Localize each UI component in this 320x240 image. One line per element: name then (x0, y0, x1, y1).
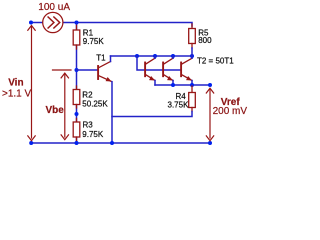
svg-text:R3: R3 (83, 120, 94, 129)
svg-text:T2 = 50T1: T2 = 50T1 (197, 57, 234, 66)
svg-text:>1.1 V: >1.1 V (2, 88, 32, 99)
svg-text:3.75K: 3.75K (168, 101, 190, 110)
svg-text:50.25K: 50.25K (82, 100, 108, 109)
wire top rail from current source to R5 corner (63, 23, 192, 27)
node R5 bottom junction (190, 54, 194, 58)
wire bottom ground rail (31, 142, 210, 144)
wire T2c collector riser (191, 56, 193, 58)
node T2b emitter junction (171, 83, 175, 87)
node R4 top junction (190, 83, 194, 87)
transistor T1 (98, 62, 111, 82)
node T1 base junction (75, 68, 79, 72)
svg-text:100 uA: 100 uA (38, 2, 70, 13)
svg-text:R2: R2 (82, 91, 93, 100)
node top-left terminal (29, 21, 33, 25)
node T2a collector junction (153, 54, 157, 58)
wire T2a emitter drop (154, 81, 156, 86)
wire T2b emitter drop (172, 81, 174, 86)
wire R4 bottom to T1 emitter (112, 112, 192, 117)
resistor R3 (73, 119, 80, 141)
svg-text:800: 800 (198, 36, 212, 45)
current source I1 100 uA (43, 12, 63, 32)
node base drop junction (135, 54, 139, 58)
svg-text:Vbe: Vbe (45, 105, 64, 116)
wire top rail left segment (31, 22, 43, 24)
wire T1 base (77, 69, 98, 71)
node R1 top junction (75, 21, 79, 25)
resistor R2 (73, 86, 80, 108)
svg-text:Vin: Vin (8, 78, 23, 89)
resistor R4 (189, 86, 196, 112)
svg-text:200 mV: 200 mV (213, 106, 248, 117)
svg-text:9.75K: 9.75K (83, 37, 105, 46)
resistor R1 (73, 26, 80, 50)
node ground right (208, 141, 212, 145)
node Vref tap (208, 83, 212, 87)
transistor T2b (163, 58, 173, 80)
wire T2c emitter drop (191, 81, 193, 86)
transistor T2c (181, 58, 192, 80)
wire T2a collector riser (154, 56, 156, 58)
node R3 bottom (75, 141, 79, 145)
node T2b collector junction (171, 54, 175, 58)
wire T2 base rail (137, 56, 181, 70)
wire T1 collector riser (110, 56, 112, 62)
svg-text:T1: T1 (96, 53, 106, 62)
arrow Vbe measure (53, 70, 72, 140)
wire T1 emitter drop (111, 82, 113, 143)
node ground left (29, 141, 33, 145)
wire collector rail (111, 55, 193, 57)
wire emitter rail (155, 84, 210, 86)
resistor R5 (189, 24, 196, 48)
arrow Vin measure (28, 26, 35, 141)
node T1 emitter ground (110, 141, 114, 145)
wire R5 to collector rail (191, 48, 193, 56)
wire T2b collector riser (172, 56, 174, 58)
node R2-R3 junction (75, 112, 79, 116)
svg-text:9.75K: 9.75K (82, 130, 104, 139)
arrow Vref measure (206, 88, 213, 141)
wire R1 column (76, 24, 78, 143)
transistor T2a (145, 58, 155, 80)
